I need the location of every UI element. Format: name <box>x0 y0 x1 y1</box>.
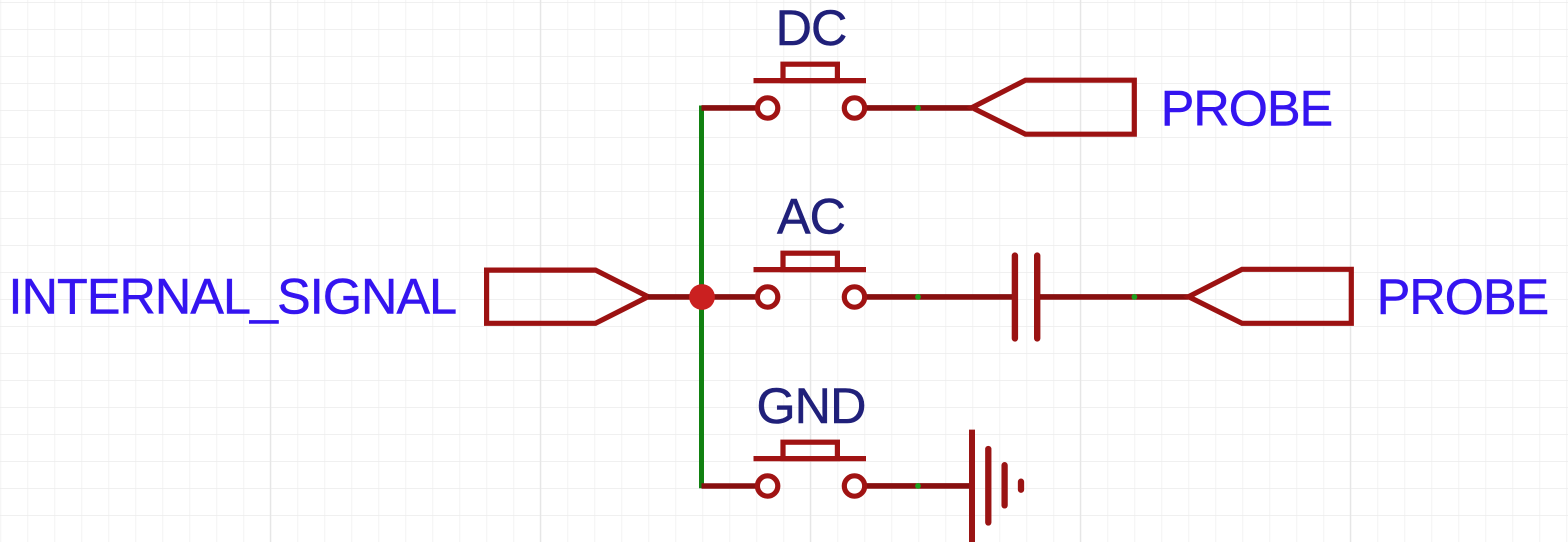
wire switch AC to capacitor <box>867 294 1012 300</box>
node dot capacitor net <box>1132 294 1138 300</box>
wire capacitor to probe <box>1040 294 1189 300</box>
junction node <box>689 284 715 310</box>
node dot DC net <box>915 105 921 111</box>
port PROBE (middle) <box>1189 269 1352 323</box>
wire bus to switch GND <box>702 483 757 489</box>
capacitor <box>1015 256 1037 339</box>
wire junction to switch AC <box>704 294 756 300</box>
svg-text:GND: GND <box>756 377 865 434</box>
svg-text:AC: AC <box>777 187 845 244</box>
node dot GND net <box>915 483 921 489</box>
svg-text:PROBE: PROBE <box>1161 79 1333 136</box>
svg-text:DC: DC <box>776 0 847 56</box>
wire green vertical bus <box>699 106 704 489</box>
ground symbol <box>972 430 1021 542</box>
switch DC <box>754 64 867 118</box>
port INTERNAL_SIGNAL <box>487 270 648 323</box>
switch AC <box>754 253 867 307</box>
port PROBE (top) <box>972 80 1134 134</box>
node dot AC net <box>915 294 921 300</box>
wire switch GND to ground <box>867 483 972 489</box>
switch GND <box>754 442 867 496</box>
svg-text:PROBE: PROBE <box>1377 268 1549 325</box>
wire port to junction <box>648 294 704 300</box>
svg-text:INTERNAL_SIGNAL: INTERNAL_SIGNAL <box>9 267 457 324</box>
wire bus to switch DC <box>702 105 757 111</box>
wire switch DC to probe <box>867 105 972 111</box>
